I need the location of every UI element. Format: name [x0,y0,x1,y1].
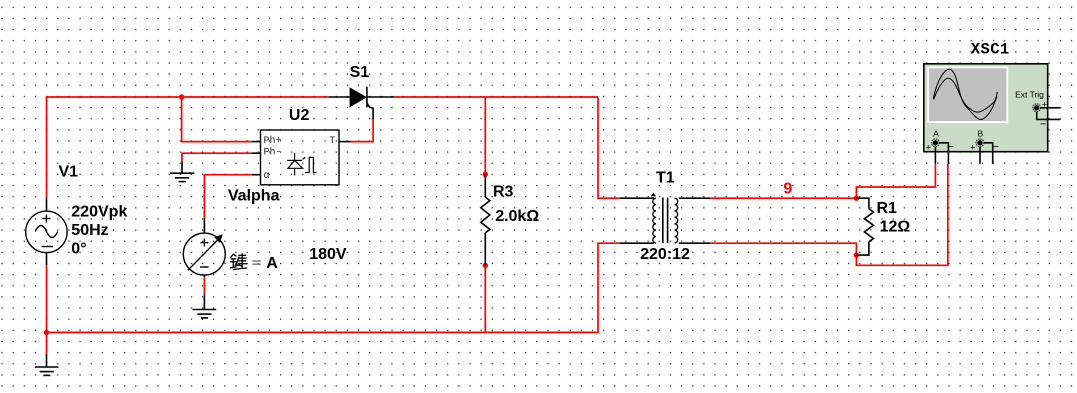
label key = A [230,253,278,272]
source Valpha [183,218,225,310]
terminal A [931,139,948,164]
svg-text:XSC1: XSC1 [971,41,1010,59]
wire R3 column top [484,97,486,174]
svg-text:U2: U2 [289,107,310,124]
svg-text:Ph+: Ph+ [264,135,282,147]
svg-text:2.0kΩ: 2.0kΩ [495,208,539,225]
svg-text:T: T [329,136,335,147]
svg-text:T1: T1 [656,170,675,187]
node R1 bottom dot [854,252,859,257]
svg-text:V1: V1 [59,164,79,181]
svg-text:50Hz: 50Hz [71,222,108,239]
wire top rail left segment [47,97,329,198]
thyristor S1 [329,87,395,120]
node R3 bottom dot [483,263,488,268]
node junction J1 [179,94,184,99]
node ground junction [44,330,49,335]
svg-text:Ph-: Ph- [264,147,282,159]
source V1 [26,198,68,266]
svg-text:+: + [970,143,975,153]
wire alpha pin to Valpha [204,175,252,218]
label R1 value [880,219,911,236]
resistor R3 [481,174,490,265]
node R3 top dot [483,172,488,177]
label U2 [289,107,310,124]
label XSC1 [971,41,1010,59]
svg-text:9: 9 [783,181,792,198]
label net 9 [783,181,792,198]
wire V1 bottom to rail [46,265,48,354]
op-amp U2 trigger block [252,130,351,185]
wire transformer secondary top to R1 [710,197,856,199]
ground GND1 (bottom left) [35,354,59,376]
wire Ph- to ground [182,153,252,161]
transformer T1 [620,193,710,244]
svg-text:Valpha: Valpha [228,188,280,205]
svg-text:Ext Trig: Ext Trig [1015,90,1044,100]
svg-text:180V: 180V [309,246,347,263]
wire bottom rail [47,243,621,332]
label R3 value [495,208,539,225]
label 180V [309,246,347,263]
terminal B [976,139,993,164]
label R3 [493,183,514,200]
svg-text:−: − [1040,119,1046,131]
label V1 [59,164,79,181]
ground GND3 (under Valpha) [193,310,217,318]
wire U2 T pin to S1 gate [351,120,374,142]
svg-text:0°: 0° [71,241,86,258]
label V1 values [71,203,127,257]
wire J1 to Ph+ pin [182,97,252,142]
svg-text:A: A [266,255,278,272]
svg-text:+: + [926,143,931,153]
resistor R1 [856,198,873,255]
wire node to transformer primary top [598,97,620,198]
terminal Ext Trig [1033,104,1061,120]
svg-text:R1: R1 [877,200,898,217]
label S1 [350,64,370,81]
oscilloscope XSC1 [924,64,1048,153]
wire S1 cathode to node [394,96,598,98]
label T1 [656,170,675,187]
wire transformer secondary bottom to R1 [710,243,856,255]
svg-text:12Ω: 12Ω [880,219,911,236]
label Valpha [228,188,280,205]
label T1 ratio [640,246,690,263]
wire R1 bottom to scope A- [856,164,947,265]
svg-text:α: α [264,171,270,182]
svg-text:B: B [978,128,984,138]
ground GND2 (under Ph-) [170,162,194,182]
svg-text:220Vpk: 220Vpk [71,203,127,220]
wire R1 top to scope A+ [856,164,935,198]
label R1 [877,200,898,217]
svg-text:S1: S1 [350,64,370,81]
svg-text:R3: R3 [493,183,514,200]
wire R3 column bottom [484,265,486,332]
node R1 top dot [854,196,859,201]
svg-text:220:12: 220:12 [640,246,690,263]
svg-text:A: A [933,128,939,138]
